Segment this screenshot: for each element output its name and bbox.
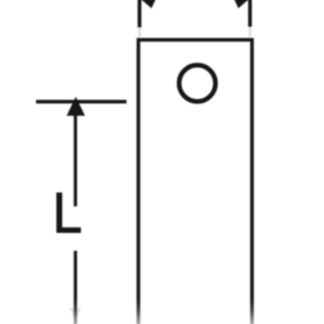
- faint down-arrow remnant at bottom of dimension line: [70, 308, 82, 321]
- label L: [56, 193, 81, 233]
- left arrowhead (cropped at top): [140, 0, 157, 8]
- bar outline (rectangle, open at bottom): [138, 40, 252, 324]
- up arrowhead of L dimension: [67, 97, 85, 116]
- dimension line lower segment: [74, 251, 77, 324]
- bottom fade-out: [0, 299, 324, 324]
- right arrowhead (cropped at top): [234, 0, 251, 8]
- dimension tick line (top of L dimension): [36, 100, 127, 104]
- right extension line (width dimension): [248, 0, 252, 27]
- faint residue below left extension line: [138, 27, 141, 37]
- pivot hole circle: [179, 65, 215, 101]
- left extension line (width dimension): [138, 0, 142, 27]
- dimension line upper segment: [74, 114, 77, 206]
- faint residue below right extension line: [249, 27, 252, 37]
